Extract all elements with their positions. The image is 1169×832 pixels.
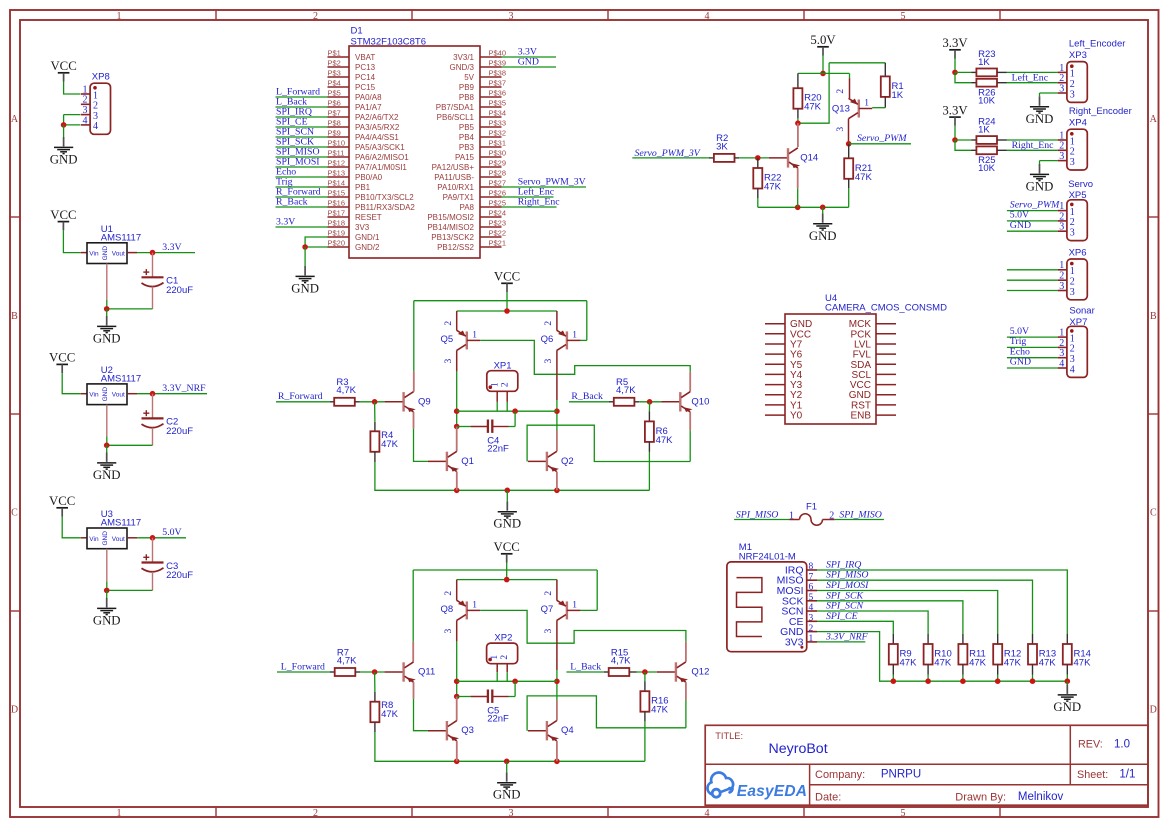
- svg-text:P$12: P$12: [328, 159, 346, 168]
- svg-text:P$21: P$21: [489, 239, 507, 248]
- svg-text:Y0: Y0: [790, 411, 803, 422]
- svg-text:RESET: RESET: [355, 213, 382, 222]
- svg-text:P$11: P$11: [328, 149, 345, 158]
- svg-text:5: 5: [901, 11, 906, 22]
- svg-text:3: 3: [509, 11, 514, 22]
- svg-text:Sheet:: Sheet:: [1077, 769, 1108, 781]
- svg-text:Q2: Q2: [561, 456, 574, 467]
- svg-text:AMS1117: AMS1117: [101, 374, 141, 385]
- svg-text:P$14: P$14: [328, 179, 346, 188]
- svg-text:TITLE:: TITLE:: [715, 731, 743, 741]
- svg-text:Q3: Q3: [461, 725, 474, 736]
- svg-text:3: 3: [809, 614, 814, 624]
- svg-text:3: 3: [544, 358, 554, 363]
- svg-text:Q6: Q6: [541, 334, 554, 345]
- svg-text:Servo_PWM: Servo_PWM: [857, 133, 907, 144]
- svg-text:P$25: P$25: [489, 199, 507, 208]
- svg-text:3: 3: [836, 127, 846, 132]
- svg-text:P$1: P$1: [328, 49, 341, 58]
- svg-text:Q9: Q9: [418, 396, 431, 407]
- svg-text:2: 2: [313, 11, 318, 22]
- svg-text:P$2: P$2: [328, 59, 341, 68]
- svg-text:Vout: Vout: [112, 536, 125, 543]
- svg-text:2: 2: [544, 321, 554, 326]
- svg-text:47K: 47K: [900, 658, 918, 669]
- svg-text:3: 3: [1070, 228, 1075, 239]
- svg-text:P$5: P$5: [328, 89, 341, 98]
- svg-text:3.3V: 3.3V: [162, 242, 181, 253]
- svg-text:47K: 47K: [1039, 658, 1057, 669]
- svg-text:2: 2: [836, 89, 846, 94]
- svg-text:C: C: [11, 508, 18, 519]
- svg-text:XP2: XP2: [494, 633, 512, 644]
- svg-text:PB4: PB4: [459, 133, 475, 142]
- svg-text:XP8: XP8: [92, 71, 110, 82]
- svg-text:Q5: Q5: [441, 334, 454, 345]
- svg-text:GND: GND: [518, 56, 539, 67]
- svg-text:4: 4: [1070, 364, 1075, 375]
- svg-text:47K: 47K: [1074, 658, 1092, 669]
- svg-text:P$4: P$4: [328, 79, 341, 88]
- svg-text:GND: GND: [1010, 357, 1031, 368]
- svg-text:VCC: VCC: [49, 351, 75, 365]
- svg-text:6: 6: [809, 583, 814, 593]
- svg-text:GND: GND: [93, 613, 121, 627]
- svg-text:PB9: PB9: [459, 83, 475, 92]
- svg-text:GND/1: GND/1: [355, 233, 380, 242]
- svg-text:CAMERA_CMOS_CONSMD: CAMERA_CMOS_CONSMD: [825, 303, 947, 314]
- svg-text:STM32F103C8T6: STM32F103C8T6: [351, 37, 427, 48]
- svg-text:Vin: Vin: [89, 536, 99, 543]
- svg-text:5: 5: [901, 808, 906, 819]
- svg-text:1/1: 1/1: [1119, 769, 1135, 781]
- svg-text:47K: 47K: [855, 172, 873, 183]
- svg-text:PB0/A0: PB0/A0: [355, 173, 383, 182]
- svg-text:2: 2: [444, 321, 454, 326]
- svg-text:3.3V_NRF: 3.3V_NRF: [162, 383, 206, 394]
- svg-text:220uF: 220uF: [166, 570, 193, 581]
- svg-text:P$10: P$10: [328, 139, 346, 148]
- svg-text:1: 1: [864, 99, 869, 109]
- svg-text:GND: GND: [493, 517, 521, 531]
- svg-text:PC15: PC15: [355, 83, 376, 92]
- svg-text:R_Back: R_Back: [276, 196, 308, 207]
- svg-text:1: 1: [472, 330, 477, 340]
- svg-text:VCC: VCC: [494, 540, 520, 554]
- svg-text:Q11: Q11: [418, 667, 435, 678]
- svg-text:PA0/A8: PA0/A8: [355, 93, 382, 102]
- svg-text:GND: GND: [1053, 700, 1081, 714]
- svg-text:PA11/USB-: PA11/USB-: [434, 173, 474, 182]
- svg-text:Date:: Date:: [815, 791, 841, 803]
- svg-text:GND: GND: [1026, 179, 1054, 193]
- svg-text:4: 4: [705, 808, 710, 819]
- svg-text:PA10/RX1: PA10/RX1: [437, 183, 474, 192]
- svg-text:P$33: P$33: [489, 119, 507, 128]
- svg-text:2: 2: [500, 655, 510, 660]
- svg-text:3: 3: [444, 628, 454, 633]
- svg-text:1K: 1K: [978, 57, 990, 68]
- svg-text:P$38: P$38: [489, 69, 507, 78]
- svg-text:4,7K: 4,7K: [337, 655, 357, 666]
- svg-text:GND: GND: [102, 531, 109, 546]
- svg-text:PA8: PA8: [459, 203, 474, 212]
- svg-text:NeyroBot: NeyroBot: [769, 741, 828, 757]
- svg-text:47K: 47K: [656, 435, 674, 446]
- svg-text:P$22: P$22: [489, 229, 507, 238]
- svg-text:PA5/A3/SCK1: PA5/A3/SCK1: [355, 143, 405, 152]
- svg-text:P$23: P$23: [489, 219, 507, 228]
- svg-text:P$31: P$31: [489, 139, 507, 148]
- svg-text:3: 3: [1059, 83, 1064, 94]
- svg-text:220uF: 220uF: [166, 426, 193, 437]
- svg-text:Q1: Q1: [461, 456, 474, 467]
- svg-text:3: 3: [1070, 89, 1075, 100]
- svg-text:GND: GND: [291, 281, 319, 295]
- svg-text:3: 3: [1059, 222, 1064, 233]
- svg-text:PB8: PB8: [459, 93, 475, 102]
- svg-text:SPI_MISO: SPI_MISO: [839, 509, 881, 520]
- svg-text:GND/3: GND/3: [450, 63, 475, 72]
- svg-text:PB3: PB3: [459, 143, 475, 152]
- svg-text:Right_Encoder: Right_Encoder: [1069, 106, 1132, 117]
- svg-text:4: 4: [93, 121, 98, 132]
- svg-text:P$28: P$28: [489, 169, 507, 178]
- svg-text:1K: 1K: [978, 125, 990, 136]
- svg-text:VCC: VCC: [50, 59, 76, 73]
- svg-text:3.3V: 3.3V: [942, 36, 968, 50]
- svg-text:P$17: P$17: [328, 209, 346, 218]
- svg-text:XP6: XP6: [1069, 248, 1087, 259]
- svg-text:PA3/A5/RX2: PA3/A5/RX2: [355, 123, 400, 132]
- svg-text:XP3: XP3: [1069, 50, 1087, 61]
- svg-text:47K: 47K: [381, 709, 399, 720]
- svg-text:Right_Enc: Right_Enc: [518, 196, 561, 207]
- svg-text:1: 1: [1070, 266, 1075, 277]
- svg-text:1: 1: [490, 382, 500, 387]
- svg-text:SPI_MISO: SPI_MISO: [736, 509, 778, 520]
- svg-text:P$7: P$7: [328, 109, 341, 118]
- svg-text:NRF24L01-M: NRF24L01-M: [739, 552, 796, 563]
- svg-text:P$30: P$30: [489, 149, 507, 158]
- svg-text:A: A: [11, 114, 19, 125]
- svg-text:GND: GND: [1026, 112, 1054, 126]
- svg-text:2: 2: [829, 510, 834, 521]
- svg-text:GND: GND: [102, 387, 109, 402]
- svg-text:C: C: [1150, 508, 1157, 519]
- svg-text:1: 1: [472, 600, 477, 610]
- svg-text:4,7K: 4,7K: [611, 655, 631, 666]
- svg-text:8: 8: [809, 562, 814, 572]
- svg-text:GND: GND: [809, 229, 837, 243]
- svg-text:47K: 47K: [804, 102, 822, 113]
- svg-text:Q14: Q14: [800, 152, 818, 163]
- svg-text:3V3/1: 3V3/1: [453, 53, 474, 62]
- svg-text:Q10: Q10: [691, 396, 709, 407]
- svg-text:PB14/MISO2: PB14/MISO2: [427, 223, 474, 232]
- svg-text:P$19: P$19: [328, 229, 346, 238]
- svg-text:PA7/A1/M0SI1: PA7/A1/M0SI1: [355, 163, 407, 172]
- svg-text:Left_Enc: Left_Enc: [1012, 73, 1049, 84]
- svg-text:PA12/USB+: PA12/USB+: [432, 163, 475, 172]
- svg-text:Company:: Company:: [815, 769, 865, 781]
- svg-text:PA2/A6/TX2: PA2/A6/TX2: [355, 113, 399, 122]
- svg-text:3.3V: 3.3V: [276, 216, 295, 227]
- svg-text:Q8: Q8: [441, 604, 454, 615]
- svg-text:5.0V: 5.0V: [810, 33, 836, 47]
- svg-text:1: 1: [117, 11, 122, 22]
- svg-text:D: D: [11, 704, 18, 715]
- svg-text:L_Forward: L_Forward: [281, 661, 325, 672]
- svg-text:3: 3: [1059, 281, 1064, 292]
- svg-text:1: 1: [809, 634, 814, 644]
- svg-text:GND: GND: [493, 788, 521, 802]
- svg-text:3: 3: [1070, 157, 1075, 168]
- svg-text:P$13: P$13: [328, 169, 346, 178]
- svg-text:GND: GND: [93, 331, 121, 345]
- svg-text:P$27: P$27: [489, 179, 507, 188]
- svg-text:Left_Encoder: Left_Encoder: [1069, 39, 1126, 50]
- svg-text:GND: GND: [50, 152, 78, 166]
- svg-text:PNRPU: PNRPU: [881, 769, 921, 781]
- svg-text:GND/2: GND/2: [355, 243, 380, 252]
- svg-text:R_Forward: R_Forward: [278, 391, 323, 402]
- svg-text:Q7: Q7: [541, 604, 554, 615]
- svg-text:Vin: Vin: [89, 392, 99, 399]
- svg-text:Q12: Q12: [691, 667, 709, 678]
- svg-text:D1: D1: [351, 26, 363, 37]
- svg-text:D: D: [1150, 704, 1157, 715]
- svg-text:P$40: P$40: [489, 49, 507, 58]
- svg-text:3V3: 3V3: [355, 223, 370, 232]
- svg-text:PB12/SS2: PB12/SS2: [437, 243, 474, 252]
- svg-text:Drawn By:: Drawn By:: [955, 791, 1006, 803]
- svg-text:PC14: PC14: [355, 73, 376, 82]
- svg-text:P$36: P$36: [489, 89, 507, 98]
- svg-text:Vin: Vin: [89, 251, 99, 258]
- svg-text:4: 4: [1059, 358, 1064, 369]
- svg-text:PA9/TX1: PA9/TX1: [443, 193, 475, 202]
- svg-text:3: 3: [544, 628, 554, 633]
- svg-text:47K: 47K: [969, 658, 987, 669]
- svg-text:Right_Enc: Right_Enc: [1012, 140, 1055, 151]
- svg-text:10K: 10K: [978, 163, 996, 174]
- svg-text:Q13: Q13: [832, 103, 850, 114]
- svg-text:3: 3: [509, 808, 514, 819]
- svg-text:P$20: P$20: [328, 239, 346, 248]
- svg-text:3K: 3K: [716, 141, 728, 152]
- svg-text:5: 5: [809, 593, 814, 603]
- svg-text:P$32: P$32: [489, 129, 507, 138]
- svg-text:4,7K: 4,7K: [336, 385, 356, 396]
- svg-text:AMS1117: AMS1117: [101, 232, 141, 243]
- svg-text:3: 3: [1070, 287, 1075, 298]
- svg-text:B: B: [1150, 311, 1157, 322]
- svg-text:R_Back: R_Back: [571, 391, 603, 402]
- svg-text:P$8: P$8: [328, 119, 341, 128]
- svg-text:VCC: VCC: [494, 270, 520, 284]
- svg-text:3V3: 3V3: [785, 636, 804, 648]
- svg-text:P$6: P$6: [328, 99, 341, 108]
- svg-text:Melnikov: Melnikov: [1018, 791, 1064, 803]
- svg-text:22nF: 22nF: [487, 444, 509, 455]
- svg-text:AMS1117: AMS1117: [101, 518, 141, 529]
- svg-text:4: 4: [809, 603, 814, 613]
- svg-text:10K: 10K: [978, 96, 996, 107]
- svg-text:SPI_CE: SPI_CE: [826, 611, 858, 622]
- svg-text:P$9: P$9: [328, 129, 341, 138]
- svg-text:47K: 47K: [934, 658, 952, 669]
- svg-text:3.3V: 3.3V: [942, 103, 968, 117]
- svg-text:2: 2: [500, 382, 510, 387]
- svg-text:5.0V: 5.0V: [162, 527, 181, 538]
- svg-text:1: 1: [572, 600, 577, 610]
- svg-text:XP1: XP1: [494, 360, 512, 371]
- svg-text:PC13: PC13: [355, 63, 376, 72]
- svg-text:47K: 47K: [381, 439, 399, 450]
- svg-text:5V: 5V: [464, 73, 474, 82]
- svg-text:P$35: P$35: [489, 99, 507, 108]
- svg-text:P$18: P$18: [328, 219, 346, 228]
- svg-text:7: 7: [809, 572, 814, 582]
- svg-text:P$39: P$39: [489, 59, 507, 68]
- svg-text:47K: 47K: [764, 181, 782, 192]
- svg-text:P$16: P$16: [328, 199, 346, 208]
- svg-text:P$37: P$37: [489, 79, 507, 88]
- svg-text:3: 3: [1059, 151, 1064, 162]
- svg-text:PB15/MOSI2: PB15/MOSI2: [427, 213, 474, 222]
- svg-text:A: A: [1150, 114, 1158, 125]
- svg-text:PB5: PB5: [459, 123, 475, 132]
- svg-text:220uF: 220uF: [166, 285, 193, 296]
- svg-text:PB1: PB1: [355, 183, 371, 192]
- svg-text:1: 1: [490, 655, 500, 660]
- svg-text:2: 2: [444, 591, 454, 596]
- svg-text:2: 2: [313, 808, 318, 819]
- svg-text:22nF: 22nF: [487, 714, 509, 725]
- svg-text:REV:: REV:: [1078, 739, 1103, 751]
- svg-text:4: 4: [705, 11, 710, 22]
- svg-text:Vout: Vout: [112, 392, 125, 399]
- svg-text:Sonar: Sonar: [1069, 306, 1094, 317]
- svg-text:PA4/A4/SS1: PA4/A4/SS1: [355, 133, 399, 142]
- svg-text:P$26: P$26: [489, 189, 507, 198]
- svg-text:PB13/SCK2: PB13/SCK2: [431, 233, 474, 242]
- svg-text:GND: GND: [93, 468, 121, 482]
- svg-text:1: 1: [572, 330, 577, 340]
- svg-text:Servo: Servo: [1068, 179, 1093, 190]
- svg-text:P$34: P$34: [489, 109, 507, 118]
- svg-text:XP4: XP4: [1069, 118, 1087, 129]
- svg-text:PB11/RX3/SDA2: PB11/RX3/SDA2: [355, 203, 415, 212]
- svg-text:F1: F1: [806, 501, 817, 512]
- svg-text:4: 4: [83, 115, 88, 126]
- svg-text:VBAT: VBAT: [355, 53, 375, 62]
- svg-text:L_Back: L_Back: [570, 661, 601, 672]
- svg-text:1: 1: [1059, 260, 1064, 271]
- svg-text:VCC: VCC: [50, 208, 76, 222]
- svg-text:GND: GND: [1010, 220, 1031, 231]
- svg-text:3: 3: [444, 358, 454, 363]
- svg-text:GND: GND: [102, 246, 109, 261]
- svg-text:P$3: P$3: [328, 69, 341, 78]
- svg-text:ENB: ENB: [850, 411, 871, 422]
- svg-text:VCC: VCC: [49, 494, 75, 508]
- svg-text:PB10/TX3/SCL2: PB10/TX3/SCL2: [355, 193, 414, 202]
- svg-text:P$29: P$29: [489, 159, 507, 168]
- svg-text:47K: 47K: [651, 705, 669, 716]
- svg-text:P$15: P$15: [328, 189, 346, 198]
- svg-text:1: 1: [117, 808, 122, 819]
- svg-text:1K: 1K: [892, 90, 904, 101]
- svg-text:EasyEDA: EasyEDA: [737, 783, 807, 800]
- svg-text:B: B: [11, 311, 18, 322]
- svg-text:3.3V_NRF: 3.3V_NRF: [825, 631, 869, 642]
- svg-text:PB7/SDA1: PB7/SDA1: [436, 103, 475, 112]
- svg-text:2: 2: [809, 624, 814, 634]
- svg-text:PB6/SCL1: PB6/SCL1: [437, 113, 475, 122]
- svg-text:Q4: Q4: [561, 725, 574, 736]
- svg-text:P$24: P$24: [489, 209, 507, 218]
- svg-text:47K: 47K: [1004, 658, 1022, 669]
- svg-text:4,7K: 4,7K: [616, 385, 636, 396]
- svg-text:PA1/A7: PA1/A7: [355, 103, 382, 112]
- svg-text:Vout: Vout: [112, 251, 125, 258]
- svg-text:1.0: 1.0: [1114, 739, 1130, 751]
- svg-text:PA6/A2/MISO1: PA6/A2/MISO1: [355, 153, 409, 162]
- svg-text:2: 2: [544, 591, 554, 596]
- svg-text:PA15: PA15: [455, 153, 475, 162]
